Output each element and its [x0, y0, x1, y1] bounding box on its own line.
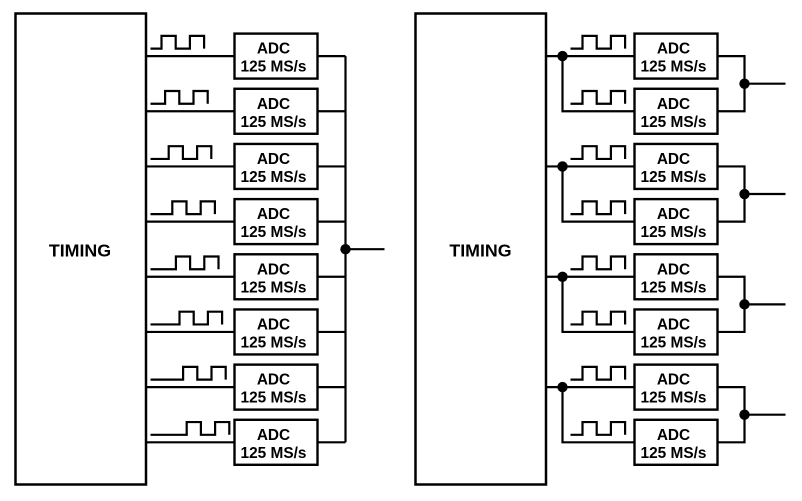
block U1 TIMING (left) [16, 14, 147, 485]
junction node M4 (pair 4 combined output) [739, 410, 749, 420]
wire TIMING to node N3 [546, 276, 563, 278]
wire pair 3 output stub [745, 303, 786, 305]
wire TIMING to node N2 [546, 165, 563, 167]
ADC A8 125 MS/s [235, 420, 318, 465]
wire ADC B7 output to node M4 [718, 387, 745, 415]
svg-text:ADC: ADC [257, 427, 290, 444]
svg-text:ADC: ADC [257, 261, 290, 278]
svg-text:ADC: ADC [257, 317, 290, 334]
wire ADC A5 output to bus [318, 276, 346, 278]
wire pair 1 output stub [745, 83, 786, 85]
wire node N2 branch down to ADC B4 [563, 166, 636, 221]
wire ADC B2 output to node M1 [718, 84, 745, 112]
wire clock phase 3 from TIMING to ADC A3 [146, 165, 236, 167]
wire ADC B4 output to node M2 [718, 194, 745, 222]
svg-text:ADC: ADC [657, 261, 690, 278]
junction node N1 (clock split, pair 1) [557, 51, 567, 61]
svg-text:ADC: ADC [257, 151, 290, 168]
svg-text:ADC: ADC [257, 372, 290, 389]
wire clock phase 7 from TIMING to ADC A7 [146, 386, 236, 388]
wire ADC A7 output to bus [318, 386, 346, 388]
svg-text:125 MS/s: 125 MS/s [641, 279, 707, 296]
wire node N1 to ADC B1 [563, 55, 636, 57]
svg-text:TIMING: TIMING [49, 241, 111, 261]
wire node N4 to ADC B7 [563, 386, 636, 388]
junction node N4 (clock split, pair 4) [557, 382, 567, 392]
svg-text:125 MS/s: 125 MS/s [641, 335, 707, 352]
ADC A7 125 MS/s [235, 365, 318, 410]
clock waveform CLK6 (phase 6/8) [151, 312, 223, 325]
junction node M2 (pair 2 combined output) [739, 189, 749, 199]
svg-text:125 MS/s: 125 MS/s [641, 224, 707, 241]
svg-text:125 MS/s: 125 MS/s [641, 59, 707, 76]
junction node M3 (pair 3 combined output) [739, 299, 749, 309]
ADC B7 125 MS/s [635, 365, 718, 410]
ADC B3 125 MS/s [635, 144, 718, 189]
svg-text:125 MS/s: 125 MS/s [641, 445, 707, 462]
svg-text:125 MS/s: 125 MS/s [641, 114, 707, 131]
clock waveform CLK2 (phase 2/8) [151, 91, 208, 104]
junction node M1 (pair 1 combined output) [739, 78, 749, 88]
clock waveform pair 3 (ADC B5) [571, 257, 626, 270]
wire node N1 branch down to ADC B2 [563, 56, 636, 111]
wire ADC A1 output to bus [318, 55, 346, 57]
block U2 TIMING (right) [416, 14, 547, 485]
ADC A4 125 MS/s [235, 199, 318, 244]
ADC B8 125 MS/s [635, 420, 718, 465]
svg-text:ADC: ADC [657, 41, 690, 58]
svg-text:ADC: ADC [257, 206, 290, 223]
junction node N3 (clock split, pair 3) [557, 272, 567, 282]
wire node N4 branch down to ADC B8 [563, 387, 636, 442]
wire clock phase 4 from TIMING to ADC A4 [146, 221, 236, 223]
clock waveform pair 3 (ADC B6) [571, 312, 626, 325]
svg-text:ADC: ADC [657, 317, 690, 334]
ADC A3 125 MS/s [235, 144, 318, 189]
ADC A2 125 MS/s [235, 89, 318, 134]
clock waveform pair 1 (ADC B2) [571, 91, 626, 104]
ADC A6 125 MS/s [235, 309, 318, 354]
ADC B5 125 MS/s [635, 254, 718, 299]
svg-text:125 MS/s: 125 MS/s [241, 445, 307, 462]
svg-text:125 MS/s: 125 MS/s [241, 169, 307, 186]
ADC B1 125 MS/s [635, 34, 718, 79]
svg-text:TIMING: TIMING [449, 241, 511, 261]
wire ADC B6 output to node M3 [718, 304, 745, 332]
svg-text:ADC: ADC [257, 96, 290, 113]
junction node N2 (clock split, pair 2) [557, 161, 567, 171]
svg-text:125 MS/s: 125 MS/s [241, 224, 307, 241]
ADC A1 125 MS/s [235, 34, 318, 79]
wire clock phase 2 from TIMING to ADC A2 [146, 110, 236, 112]
wire ADC A4 output to bus [318, 221, 346, 223]
svg-text:125 MS/s: 125 MS/s [241, 335, 307, 352]
clock waveform pair 2 (ADC B4) [571, 201, 626, 214]
clock waveform CLK7 (phase 7/8) [151, 367, 226, 380]
clock waveform pair 4 (ADC B7) [571, 367, 626, 380]
clock waveform pair 2 (ADC B3) [571, 146, 626, 159]
wire pair 4 output stub [745, 414, 786, 416]
svg-text:125 MS/s: 125 MS/s [641, 390, 707, 407]
wire ADC B1 output to node M1 [718, 56, 745, 84]
svg-text:125 MS/s: 125 MS/s [241, 59, 307, 76]
wire ADC B3 output to node M2 [718, 166, 745, 194]
wire ADC A8 output to bus [318, 441, 346, 443]
wire pair 2 output stub [745, 193, 786, 195]
clock waveform CLK3 (phase 3/8) [151, 146, 212, 159]
svg-text:ADC: ADC [657, 206, 690, 223]
ADC B2 125 MS/s [635, 89, 718, 134]
clock waveform CLK4 (phase 4/8) [151, 201, 215, 214]
wire output bus vertical (left) [344, 56, 346, 442]
wire node N3 branch down to ADC B6 [563, 277, 636, 332]
ADC A5 125 MS/s [235, 254, 318, 299]
wire ADC A6 output to bus [318, 331, 346, 333]
svg-text:125 MS/s: 125 MS/s [241, 114, 307, 131]
wire clock phase 6 from TIMING to ADC A6 [146, 331, 236, 333]
wire node N2 to ADC B3 [563, 165, 636, 167]
svg-text:125 MS/s: 125 MS/s [641, 169, 707, 186]
clock waveform pair 1 (ADC B1) [571, 36, 626, 49]
ADC B6 125 MS/s [635, 309, 718, 354]
wire node N3 to ADC B5 [563, 276, 636, 278]
wire ADC B8 output to node M4 [718, 415, 745, 443]
wire clock phase 5 from TIMING to ADC A5 [146, 276, 236, 278]
svg-text:ADC: ADC [657, 372, 690, 389]
wire ADC A3 output to bus [318, 165, 346, 167]
wire ADC A2 output to bus [318, 110, 346, 112]
svg-text:ADC: ADC [257, 41, 290, 58]
wire clock phase 8 from TIMING to ADC A8 [146, 441, 236, 443]
clock waveform CLK5 (phase 5/8) [151, 257, 219, 270]
ADC B4 125 MS/s [635, 199, 718, 244]
wire TIMING to node N4 [546, 386, 563, 388]
clock waveform pair 4 (ADC B8) [571, 422, 626, 435]
wire ADC B5 output to node M3 [718, 277, 745, 305]
svg-text:125 MS/s: 125 MS/s [241, 390, 307, 407]
svg-text:ADC: ADC [657, 427, 690, 444]
wire combined output stub (left) [346, 248, 385, 250]
wire clock phase 1 from TIMING to ADC A1 [146, 55, 236, 57]
svg-text:ADC: ADC [657, 96, 690, 113]
svg-text:125 MS/s: 125 MS/s [241, 279, 307, 296]
svg-text:ADC: ADC [657, 151, 690, 168]
junction node OUT (left) [340, 244, 350, 254]
wire TIMING to node N1 [546, 55, 563, 57]
clock waveform CLK8 (phase 8/8) [151, 422, 230, 435]
clock waveform CLK1 (phase 1/8) [151, 36, 205, 49]
